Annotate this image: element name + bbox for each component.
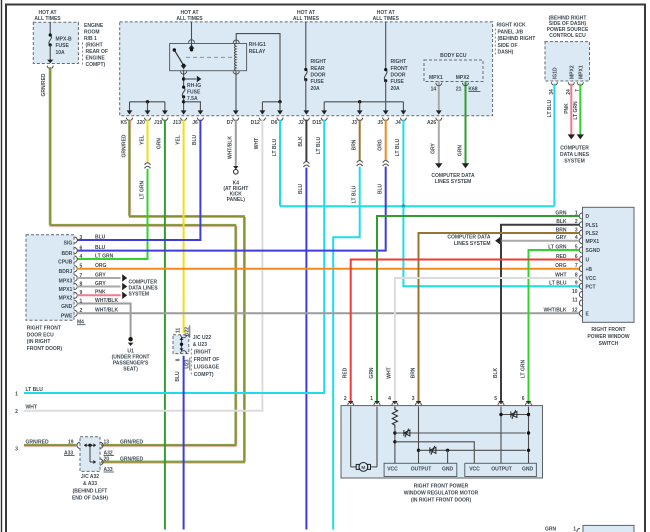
connector K4 arrow bbox=[233, 166, 238, 169]
svg-text:& U23: & U23 bbox=[193, 342, 207, 348]
body ECU pin arc MPX1 bbox=[436, 83, 442, 86]
svg-text:& A33: & A33 bbox=[83, 481, 97, 487]
svg-text:M: M bbox=[361, 465, 365, 471]
svg-text:LT BLU: LT BLU bbox=[352, 185, 358, 203]
svg-text:COMPUTER DATA: COMPUTER DATA bbox=[431, 173, 475, 179]
wire GRN from J19 to bottom of page bbox=[164, 120, 166, 530]
svg-text:J3: J3 bbox=[352, 120, 358, 126]
svg-text:GRN: GRN bbox=[545, 527, 557, 532]
svg-text:3: 3 bbox=[80, 235, 83, 241]
wire LT BLU from D15 to line 1 bbox=[24, 120, 324, 393]
pin J20 of right kick panel J/B bbox=[145, 110, 151, 114]
relay coil bottom arc bbox=[233, 71, 239, 74]
wire GRN/RED line 3 to J/C A32 pin 19 bbox=[24, 443, 76, 445]
svg-text:(IN RIGHT: (IN RIGHT bbox=[27, 339, 51, 345]
switch pin 8 (VCC) bbox=[579, 275, 582, 281]
svg-text:RED: RED bbox=[343, 367, 349, 378]
motor pin 5 (BLK) bbox=[498, 401, 503, 404]
svg-text:ORG: ORG bbox=[555, 263, 567, 269]
wire feed into MPX-B fuse bbox=[49, 22, 51, 35]
wire BRN from J3 bbox=[359, 120, 361, 161]
wire bus drop to K5 bbox=[129, 102, 131, 111]
svg-text:LT BLU: LT BLU bbox=[547, 99, 553, 117]
svg-text:VCC: VCC bbox=[387, 467, 398, 473]
svg-text:BLK: BLK bbox=[298, 136, 304, 147]
svg-text:R/B 1: R/B 1 bbox=[84, 36, 97, 42]
svg-text:FUSE: FUSE bbox=[56, 43, 70, 49]
svg-text:MPX1: MPX1 bbox=[429, 75, 443, 81]
pin arrow MPX-B fuse output bbox=[47, 60, 53, 64]
svg-text:GRY: GRY bbox=[431, 143, 437, 154]
svg-text:END OF DASH): END OF DASH) bbox=[72, 496, 108, 502]
svg-text:LT GRN: LT GRN bbox=[520, 359, 526, 378]
svg-text:DOOR: DOOR bbox=[391, 73, 406, 79]
svg-text:FUSE: FUSE bbox=[391, 79, 405, 85]
svg-text:RH-IG1: RH-IG1 bbox=[249, 42, 266, 48]
svg-text:GRN: GRN bbox=[369, 367, 375, 379]
relay coil top arc bbox=[233, 40, 239, 43]
svg-text:FRONT: FRONT bbox=[391, 66, 408, 72]
svg-text:CPUB: CPUB bbox=[58, 259, 73, 265]
J/C A32 internal arrows bbox=[84, 444, 96, 446]
svg-text:GND: GND bbox=[442, 467, 454, 473]
wire bus drop to J19 bbox=[164, 102, 166, 111]
wire YEL from J20 bbox=[147, 120, 149, 163]
motor internal resistor bbox=[392, 407, 397, 429]
svg-text:LT BLU: LT BLU bbox=[26, 387, 44, 393]
svg-text:MPX1: MPX1 bbox=[586, 239, 600, 245]
svg-text:DASH): DASH) bbox=[498, 50, 514, 56]
relay feed wire from HOT AT ALL TIMES bbox=[191, 22, 193, 50]
svg-text:+B: +B bbox=[586, 267, 593, 273]
svg-text:SIG: SIG bbox=[64, 240, 73, 246]
svg-text:LT BLU: LT BLU bbox=[272, 138, 278, 156]
svg-text:4: 4 bbox=[388, 396, 391, 402]
pin J13 of right kick panel J/B bbox=[181, 110, 187, 114]
wire WHT switch VCC to motor pin 4 bbox=[395, 278, 580, 401]
svg-text:HOT AT: HOT AT bbox=[38, 10, 56, 16]
svg-text:ROOM: ROOM bbox=[84, 30, 100, 36]
svg-text:FUSE: FUSE bbox=[311, 79, 325, 85]
pin J19 of right kick panel J/B bbox=[162, 110, 168, 114]
svg-text:LT BLU: LT BLU bbox=[395, 138, 401, 156]
wire bus drop to J4 bbox=[402, 102, 404, 111]
svg-text:BLK: BLK bbox=[493, 367, 499, 378]
switch pin 10 (nc) bbox=[579, 291, 582, 297]
relay switch output arrow down bbox=[181, 65, 187, 69]
svg-text:ALL TIMES: ALL TIMES bbox=[373, 16, 400, 22]
motor sub-module VCC/OUTPUT/GND left bbox=[384, 463, 457, 476]
frame right bbox=[644, 4, 646, 532]
junction dot relay output branch bbox=[182, 77, 185, 80]
svg-text:MPX-B: MPX-B bbox=[56, 37, 73, 43]
svg-text:RIGHT FRONT POWER: RIGHT FRONT POWER bbox=[414, 484, 469, 490]
page border left outer bbox=[1, 0, 3, 532]
svg-text:21: 21 bbox=[456, 86, 462, 92]
svg-text:PANEL): PANEL) bbox=[227, 197, 246, 203]
wire front fuse to J5 bbox=[385, 81, 387, 111]
svg-text:6: 6 bbox=[80, 245, 83, 251]
svg-text:PNK: PNK bbox=[564, 103, 570, 114]
svg-text:BLU: BLU bbox=[192, 134, 198, 145]
inline connector on J5 wire bbox=[383, 161, 389, 163]
ground U1 arrow bbox=[128, 343, 134, 346]
junction dot gnd drop bbox=[446, 449, 449, 452]
svg-text:HOT AT: HOT AT bbox=[180, 10, 198, 16]
svg-text:14: 14 bbox=[431, 86, 437, 92]
svg-text:SYSTEM: SYSTEM bbox=[564, 158, 585, 164]
switch pin 6 (U) bbox=[579, 256, 582, 262]
bus D12/D6 bbox=[262, 101, 280, 103]
svg-text:1: 1 bbox=[573, 527, 576, 532]
motor pin 3 (BRN) bbox=[416, 401, 421, 404]
wire body ECU MPX1 to A26 bbox=[438, 82, 440, 111]
svg-text:D12: D12 bbox=[251, 120, 260, 126]
motor internal wire to left GND bbox=[447, 450, 449, 463]
svg-text:J19: J19 bbox=[154, 120, 163, 126]
wire bus drop to D6 bbox=[279, 102, 281, 111]
pin J2 of right kick panel J/B bbox=[304, 110, 310, 114]
svg-text:PLS2: PLS2 bbox=[586, 231, 599, 237]
motor internal wire pin 5 column bbox=[500, 407, 502, 464]
svg-text:20A: 20A bbox=[391, 86, 401, 92]
wire BLU from connector to bottom of page bbox=[305, 168, 307, 530]
svg-text:VCC: VCC bbox=[586, 276, 597, 282]
motor internal wire pin 3 column bbox=[418, 407, 420, 464]
junction block - engine room R/B 1 (MPX-B fuse box) bbox=[33, 22, 78, 63]
svg-text:HOT AT: HOT AT bbox=[377, 10, 395, 16]
motor internal diode row 2 bbox=[419, 449, 526, 451]
wire bus drop to J20 bbox=[147, 102, 149, 111]
pin D12 of right kick panel J/B bbox=[260, 110, 266, 114]
wire GRN from MPX2 to computer data lines arrow bbox=[465, 118, 467, 164]
wire ORG door ECU BDRJ to switch +B bbox=[77, 268, 579, 270]
wire WHT/BLK door ECU PWE to switch E bbox=[77, 312, 579, 314]
pin D6 of right kick panel J/B bbox=[277, 110, 283, 114]
svg-text:SWITCH: SWITCH bbox=[599, 341, 619, 347]
wire LT BLU from connector jog to bottom of page bbox=[333, 167, 360, 530]
switch pin 7 (+B) bbox=[579, 266, 582, 272]
svg-text:J20: J20 bbox=[137, 120, 146, 126]
wire bus drop to D15 bbox=[323, 102, 325, 111]
svg-text:6: 6 bbox=[522, 396, 525, 402]
svg-text:10: 10 bbox=[572, 289, 578, 295]
body ECU pin arc MPX2 bbox=[463, 83, 469, 86]
svg-text:WINDOW REGULATOR MOTOR: WINDOW REGULATOR MOTOR bbox=[404, 491, 479, 497]
svg-text:1: 1 bbox=[370, 396, 373, 402]
svg-text:4: 4 bbox=[80, 254, 83, 260]
psc ECU pin arc IG1D bbox=[551, 82, 557, 85]
wire LT GRN from psc MPX1 bbox=[579, 84, 581, 135]
svg-text:3: 3 bbox=[15, 446, 18, 452]
svg-text:(BEHIND LEFT: (BEHIND LEFT bbox=[73, 488, 108, 494]
motor pin 4 (WHT) bbox=[392, 401, 397, 404]
motor M1 - right front power window regulator motor box bbox=[341, 406, 543, 478]
svg-text:5: 5 bbox=[494, 396, 497, 402]
svg-text:GRN/RED: GRN/RED bbox=[120, 440, 143, 446]
svg-text:D6: D6 bbox=[271, 120, 278, 126]
svg-text:GRN: GRN bbox=[457, 145, 463, 157]
relay switch output dot bbox=[182, 64, 185, 67]
svg-text:ALL TIMES: ALL TIMES bbox=[293, 16, 320, 22]
svg-text:10A: 10A bbox=[56, 50, 66, 56]
pin J3 of right kick panel J/B bbox=[357, 110, 363, 114]
svg-text:CONTROL ECU: CONTROL ECU bbox=[549, 33, 586, 39]
svg-text:GND: GND bbox=[522, 467, 534, 473]
wire relay output to RH-IG fuse bbox=[183, 70, 185, 87]
svg-text:IG1D: IG1D bbox=[553, 67, 559, 79]
svg-text:BLU: BLU bbox=[95, 234, 106, 240]
svg-text:BRN: BRN bbox=[352, 139, 358, 150]
relay switch output bottom arc bbox=[181, 71, 187, 74]
wire LT BLU from IG1D to bus bbox=[553, 84, 555, 207]
inline connector on J2 wire bbox=[303, 162, 309, 164]
junction dot on K5 bus at J20 bbox=[146, 100, 149, 103]
svg-text:3: 3 bbox=[412, 396, 415, 402]
svg-text:MPX1: MPX1 bbox=[59, 287, 73, 293]
svg-text:MPX1: MPX1 bbox=[579, 65, 585, 79]
pin J4 of right kick panel J/B bbox=[401, 110, 407, 114]
svg-text:BDR: BDR bbox=[61, 251, 72, 257]
svg-text:YEL: YEL bbox=[139, 135, 145, 145]
junction dot RH-IG fuse output bbox=[182, 100, 185, 103]
svg-text:SIDE OF: SIDE OF bbox=[498, 43, 518, 49]
pin J5 of right kick panel J/B bbox=[383, 110, 389, 114]
svg-text:COMPT): COMPT) bbox=[86, 62, 106, 68]
svg-text:LINES SYSTEM: LINES SYSTEM bbox=[454, 241, 491, 247]
junction connector J/C A32 and A33 box bbox=[80, 437, 100, 472]
relay feed arrow up bbox=[189, 45, 195, 49]
svg-text:REAR: REAR bbox=[311, 66, 326, 72]
motor internal wire pin 1 to motor bbox=[376, 407, 378, 467]
svg-text:SYSTEM: SYSTEM bbox=[129, 291, 150, 297]
wire GRN/RED from K5 to J/C A32 pin 20 bbox=[127, 120, 129, 217]
fuse MPX-B element bbox=[49, 35, 52, 45]
svg-text:19: 19 bbox=[68, 440, 74, 446]
svg-text:11: 11 bbox=[572, 297, 578, 303]
svg-text:LT GRN: LT GRN bbox=[95, 253, 114, 259]
svg-text:WHT: WHT bbox=[387, 367, 393, 378]
arrow PNK to computer data lines system bbox=[568, 134, 575, 139]
svg-text:RIGHT FRONT: RIGHT FRONT bbox=[27, 326, 61, 332]
svg-text:1: 1 bbox=[15, 391, 18, 397]
svg-text:COMPT): COMPT) bbox=[194, 372, 214, 378]
svg-text:(RIGHT: (RIGHT bbox=[86, 43, 103, 49]
junction dot rear bus at D6 bbox=[278, 100, 281, 103]
fuse RH-IG element bbox=[182, 87, 185, 97]
ECU M4 - right front door ECU box bbox=[26, 235, 74, 321]
wire LT BLU from J4 bbox=[402, 120, 404, 207]
motor pin 2 (RED) bbox=[348, 401, 353, 404]
svg-text:J/C U22: J/C U22 bbox=[193, 335, 212, 341]
wire GRN switch D to motor pin 1 bbox=[377, 216, 579, 401]
svg-text:PLS1: PLS1 bbox=[586, 223, 599, 229]
svg-text:DOOR ECU: DOOR ECU bbox=[27, 332, 54, 338]
wire RH-IG fuse to J13 bbox=[183, 97, 185, 111]
wire bus drop to D12 bbox=[261, 102, 263, 111]
svg-text:WHT: WHT bbox=[26, 405, 37, 411]
svg-text:RELAY: RELAY bbox=[249, 49, 266, 55]
switch pin 4 (MPX1) bbox=[579, 238, 582, 244]
J/C U22 pin 8 exit arc bbox=[181, 351, 187, 354]
svg-text:DOOR: DOOR bbox=[311, 73, 326, 79]
svg-text:U: U bbox=[586, 258, 590, 264]
wire BLK switch PLS1 to motor pin 5 bbox=[501, 225, 579, 402]
switch S1 - right front power window switch box bbox=[583, 207, 635, 322]
relay K1 RH-IG1 relay box bbox=[170, 44, 247, 71]
svg-text:BODY ECU: BODY ECU bbox=[440, 53, 467, 59]
relay switch blade bbox=[174, 50, 183, 65]
svg-text:J2: J2 bbox=[298, 120, 304, 126]
psc ECU pin arc MPX2 bbox=[568, 82, 574, 85]
wire GRY switch MPX1 to computer data lines bbox=[502, 240, 580, 242]
svg-text:MPX2: MPX2 bbox=[456, 75, 470, 81]
arrow GRY computer data lines (switch) bbox=[495, 237, 500, 244]
wire BLU from connector to door ECU BDR bbox=[77, 167, 386, 251]
svg-text:J6: J6 bbox=[192, 120, 198, 126]
wire rear fuse to J2 bbox=[305, 80, 307, 111]
svg-text:MPX3: MPX3 bbox=[59, 278, 73, 284]
junction block - right kick panel J/B bbox=[120, 22, 493, 116]
frame top bbox=[5, 4, 646, 6]
svg-text:2: 2 bbox=[344, 396, 347, 402]
svg-text:WHT/BLK: WHT/BLK bbox=[228, 136, 234, 159]
fuse right front door element bbox=[384, 70, 387, 81]
J/C A32 pin 13 bracket bbox=[100, 442, 103, 448]
svg-text:A26: A26 bbox=[427, 120, 436, 126]
wire bus drop to J3 bbox=[359, 102, 361, 111]
svg-text:LT BLU: LT BLU bbox=[316, 136, 322, 154]
ECU U2 - body ECU box bbox=[424, 60, 483, 82]
wire GRY door ECU MPX3 arrow bbox=[77, 277, 121, 279]
svg-text:ENGINE: ENGINE bbox=[84, 23, 104, 29]
motor internal wire to right VCC bbox=[395, 442, 474, 464]
wire PNK from psc MPX2 bbox=[570, 84, 572, 135]
svg-text:12: 12 bbox=[572, 308, 578, 314]
wire BLU from J6 to door ECU SIG bbox=[77, 120, 200, 240]
svg-text:LUGGAGE: LUGGAGE bbox=[194, 364, 220, 370]
relay switch fixed contact dot bbox=[173, 48, 176, 51]
bus D15/J3/J5/J4 bbox=[324, 101, 403, 103]
svg-text:PCT: PCT bbox=[586, 284, 596, 290]
svg-text:GND: GND bbox=[61, 304, 73, 310]
wire ORG from J5 bbox=[385, 120, 387, 161]
svg-text:K5: K5 bbox=[120, 120, 127, 126]
wire GRY door ECU MPX1 arrow bbox=[77, 286, 121, 288]
junction dot front bus at J3 bbox=[358, 100, 361, 103]
svg-text:WHT: WHT bbox=[254, 138, 260, 149]
svg-text:ENGINE: ENGINE bbox=[86, 56, 106, 62]
ground U1 dot bbox=[128, 337, 132, 341]
pin K5 of right kick panel J/B bbox=[127, 110, 133, 114]
J/C A32 pin 20 bracket bbox=[100, 459, 103, 465]
svg-text:YEL: YEL bbox=[175, 135, 181, 145]
svg-text:WHT/BLK: WHT/BLK bbox=[543, 308, 566, 314]
svg-text:LT GRN: LT GRN bbox=[573, 101, 579, 120]
wire PNK door ECU MPX2 arrow bbox=[77, 294, 121, 296]
wire WHT/BLK door ECU GND to ground U1 bbox=[77, 304, 131, 338]
svg-text:GRN: GRN bbox=[157, 138, 163, 150]
inline connector on J20 wire bbox=[145, 163, 151, 165]
svg-text:LINES SYSTEM: LINES SYSTEM bbox=[435, 179, 472, 185]
switch pin 1 (D) bbox=[579, 213, 582, 219]
inline connector on J3 wire bbox=[357, 161, 363, 163]
svg-text:BLU: BLU bbox=[298, 183, 304, 194]
pin D15 of right kick panel J/B bbox=[321, 110, 327, 114]
junction connector J/C U22 and U23 box bbox=[173, 335, 189, 354]
svg-text:BLU: BLU bbox=[175, 371, 181, 382]
junction dot pin3 bbox=[417, 449, 420, 452]
fuse right rear door element bbox=[304, 70, 307, 80]
relay internal dashed divider bbox=[186, 56, 233, 58]
junction dot pin4 lower bbox=[393, 440, 396, 443]
svg-text:J/C A32: J/C A32 bbox=[81, 474, 99, 480]
svg-text:REAR OF: REAR OF bbox=[86, 49, 109, 55]
svg-text:7: 7 bbox=[575, 263, 578, 269]
switch pin 3 (PLS2) bbox=[579, 230, 582, 236]
motor internal wire pin 6 column bbox=[528, 407, 530, 464]
wire relay coil feed to rear-door bus bbox=[236, 34, 280, 102]
wire LT BLU bus D6/J4/IG1D bbox=[280, 205, 554, 207]
switch pin 5 (SGND) bbox=[579, 247, 582, 253]
svg-text:BLU: BLU bbox=[95, 245, 106, 251]
wire LT BLU from D6 down to bus bbox=[279, 120, 281, 207]
svg-text:COMPUTER: COMPUTER bbox=[560, 145, 589, 151]
bus K5/J20/J19 bbox=[130, 101, 165, 103]
svg-text:(BEHIND RIGHT: (BEHIND RIGHT bbox=[498, 36, 536, 42]
wire body ECU MPX2 down bbox=[465, 82, 467, 119]
junction dot LT BLU at J4 bbox=[402, 204, 406, 208]
motor pin 1 (GRN) bbox=[374, 401, 379, 404]
svg-text:J13: J13 bbox=[173, 120, 182, 126]
svg-text:BRN: BRN bbox=[410, 367, 416, 378]
ECU - power source control ECU box bbox=[545, 42, 590, 81]
wire GRY from A26 to computer data lines arrow bbox=[438, 120, 440, 164]
svg-text:ALL TIMES: ALL TIMES bbox=[34, 16, 61, 22]
switch pin 12 (E) bbox=[579, 310, 582, 316]
svg-text:J5: J5 bbox=[378, 120, 384, 126]
wire BRN switch PLS2 to motor pin 3 bbox=[419, 233, 580, 401]
switch pin 11 (nc) bbox=[579, 300, 582, 306]
svg-text:BDRJ: BDRJ bbox=[59, 269, 73, 275]
arrow LT GRN to computer data lines system bbox=[577, 134, 584, 139]
svg-text:(RIGHT: (RIGHT bbox=[194, 350, 211, 356]
J/C U22 internal arrows bbox=[181, 337, 183, 351]
wire right rear door fuse feed bbox=[305, 22, 307, 70]
svg-text:8: 8 bbox=[176, 358, 182, 361]
wire right front door fuse feed bbox=[385, 22, 387, 70]
svg-text:FUSE: FUSE bbox=[187, 89, 201, 95]
wire WHT from D12 to line 2 bbox=[24, 120, 262, 411]
wire WHT/BLK from D7 to K4 bbox=[235, 120, 237, 166]
wire YEL from J13 to J/C U22 pin 11 bbox=[183, 120, 185, 334]
svg-text:ORG: ORG bbox=[378, 139, 384, 151]
svg-text:VCC: VCC bbox=[469, 467, 480, 473]
wire LT GRN from connector to door ECU CPUB bbox=[77, 169, 148, 259]
svg-text:D15: D15 bbox=[312, 120, 321, 126]
wire fuse to connector bbox=[49, 45, 51, 60]
svg-text:SGND: SGND bbox=[586, 248, 601, 254]
relay feed contact dot bbox=[190, 48, 193, 51]
svg-text:(IN RIGHT FRONT DOOR): (IN RIGHT FRONT DOOR) bbox=[411, 498, 472, 504]
svg-text:LT BLU: LT BLU bbox=[549, 281, 567, 287]
svg-text:GRN/RED: GRN/RED bbox=[41, 73, 47, 96]
svg-text:BLU: BLU bbox=[378, 183, 384, 194]
switch pin 9 (PCT) bbox=[579, 283, 582, 289]
svg-text:20: 20 bbox=[104, 456, 110, 462]
svg-text:RIGHT FRONT: RIGHT FRONT bbox=[591, 327, 625, 333]
svg-text:MPX2: MPX2 bbox=[59, 296, 73, 302]
